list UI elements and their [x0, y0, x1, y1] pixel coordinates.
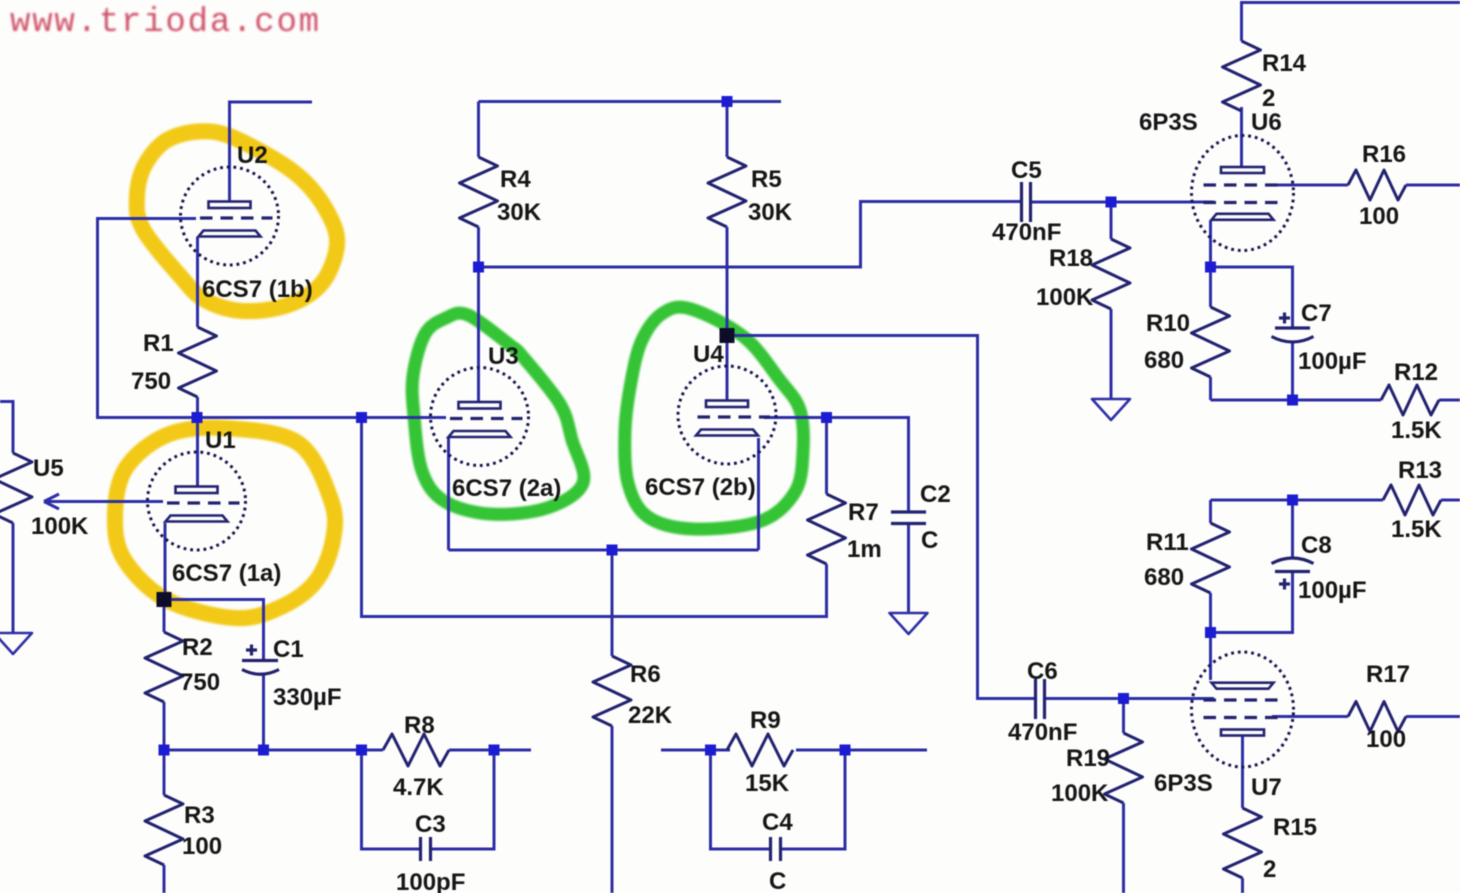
svg-text:100: 100 [1366, 726, 1406, 753]
svg-text:750: 750 [131, 368, 171, 395]
svg-text:750: 750 [180, 669, 220, 696]
svg-text:C3: C3 [415, 811, 446, 838]
svg-text:22K: 22K [628, 702, 673, 729]
svg-text:470nF: 470nF [992, 219, 1061, 246]
svg-text:100: 100 [182, 833, 222, 860]
svg-text:R2: R2 [182, 634, 213, 661]
svg-text:4.7K: 4.7K [393, 774, 444, 801]
svg-text:680: 680 [1144, 347, 1184, 374]
svg-text:C2: C2 [920, 481, 951, 508]
svg-text:100K: 100K [31, 513, 89, 540]
svg-text:1.5K: 1.5K [1391, 417, 1442, 444]
svg-text:C6: C6 [1027, 658, 1058, 685]
svg-text:100K: 100K [1051, 780, 1109, 807]
svg-text:C: C [769, 868, 786, 893]
svg-text:R13: R13 [1398, 457, 1442, 484]
svg-text:R10: R10 [1146, 310, 1190, 337]
svg-text:C5: C5 [1011, 157, 1042, 184]
svg-text:R5: R5 [751, 166, 782, 193]
svg-text:R12: R12 [1394, 359, 1438, 386]
svg-text:R15: R15 [1273, 814, 1317, 841]
svg-text:R3: R3 [184, 802, 215, 829]
svg-text:U6: U6 [1251, 109, 1282, 136]
svg-text:R14: R14 [1262, 50, 1307, 77]
svg-text:R18: R18 [1049, 245, 1093, 272]
svg-text:R16: R16 [1362, 141, 1406, 168]
svg-text:470nF: 470nF [1008, 719, 1077, 746]
svg-text:U7: U7 [1251, 774, 1282, 801]
svg-text:R6: R6 [630, 661, 661, 688]
svg-text:U2: U2 [237, 142, 268, 169]
svg-text:2: 2 [1262, 85, 1275, 112]
svg-text:6CS7 (2a): 6CS7 (2a) [452, 475, 561, 502]
svg-text:6P3S: 6P3S [1139, 109, 1198, 136]
svg-text:30K: 30K [497, 199, 542, 226]
svg-text:www.trioda.com: www.trioda.com [10, 4, 321, 42]
svg-text:30K: 30K [748, 199, 793, 226]
svg-text:100µF: 100µF [1298, 348, 1367, 375]
svg-text:6CS7 (1a): 6CS7 (1a) [172, 560, 281, 587]
svg-text:U5: U5 [33, 455, 64, 482]
svg-text:R1: R1 [143, 330, 174, 357]
svg-text:R4: R4 [500, 166, 531, 193]
svg-text:C8: C8 [1301, 532, 1332, 559]
svg-text:100K: 100K [1036, 284, 1094, 311]
svg-text:R17: R17 [1366, 661, 1410, 688]
svg-text:R9: R9 [750, 707, 781, 734]
svg-text:100: 100 [1359, 203, 1399, 230]
svg-text:330µF: 330µF [273, 684, 342, 711]
svg-text:C7: C7 [1301, 300, 1332, 327]
svg-text:1m: 1m [847, 536, 882, 563]
svg-text:1.5K: 1.5K [1391, 516, 1442, 543]
svg-text:2: 2 [1263, 856, 1276, 883]
svg-text:680: 680 [1144, 564, 1184, 591]
svg-text:15K: 15K [745, 770, 790, 797]
svg-text:6CS7 (1b): 6CS7 (1b) [202, 276, 313, 303]
svg-text:R7: R7 [848, 499, 879, 526]
svg-text:100µF: 100µF [1298, 577, 1367, 604]
svg-text:6CS7 (2b): 6CS7 (2b) [645, 474, 756, 501]
svg-text:C1: C1 [273, 636, 304, 663]
svg-text:R11: R11 [1146, 529, 1189, 556]
svg-text:C: C [921, 527, 938, 554]
svg-text:100pF: 100pF [396, 869, 465, 893]
svg-text:R19: R19 [1066, 745, 1110, 772]
svg-text:6P3S: 6P3S [1154, 770, 1213, 797]
svg-text:U3: U3 [488, 343, 519, 370]
svg-text:C4: C4 [762, 809, 793, 836]
svg-text:R8: R8 [404, 712, 435, 739]
svg-text:U1: U1 [205, 427, 236, 454]
svg-text:U4: U4 [693, 341, 724, 368]
